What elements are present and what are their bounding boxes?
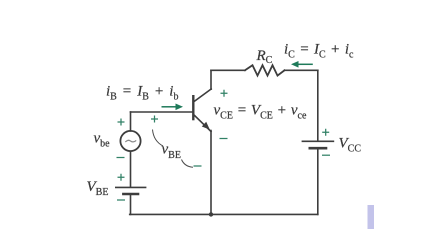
svg-text:vBE: vBE <box>162 142 181 161</box>
svg-text:VBE: VBE <box>87 179 109 198</box>
svg-text:VCC: VCC <box>339 135 362 154</box>
svg-text:iB = IB + ib: iB = IB + ib <box>106 83 178 102</box>
svg-text:vCE = VCE + vce: vCE = VCE + vce <box>214 103 307 122</box>
svg-text:vbe: vbe <box>94 131 111 150</box>
svg-text:RC: RC <box>256 48 273 66</box>
svg-text:iC = IC + ic: iC = IC + ic <box>284 42 354 61</box>
